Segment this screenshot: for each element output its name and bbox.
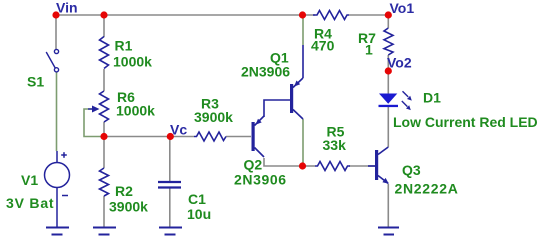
wire R1 top <box>103 15 105 37</box>
wire R5 to Q3 base <box>349 165 375 167</box>
battery V1 <box>45 151 70 227</box>
junction Vin left <box>52 11 59 18</box>
svg-text:3900k: 3900k <box>194 109 233 125</box>
wire R4 to Vo1 <box>349 14 388 16</box>
wire R2 top lead <box>103 137 105 169</box>
svg-text:33k: 33k <box>323 137 347 153</box>
resistor R7 <box>384 28 393 55</box>
svg-text:Q3: Q3 <box>402 162 421 178</box>
resistor R3 <box>194 132 226 141</box>
wire top rail Vin to R4 <box>56 14 315 16</box>
wire Q1 collector down to junction <box>302 119 304 166</box>
R6 wiper arrow <box>88 108 96 110</box>
ground (battery) <box>46 228 69 235</box>
wire Q2 emitter to Q1 base <box>264 100 290 114</box>
capacitor C1 <box>158 182 181 188</box>
LED D1 <box>379 91 412 110</box>
resistor R4 <box>313 11 349 20</box>
wire Vin down to switch <box>55 15 57 49</box>
wire Q3 emitter to ground <box>387 184 389 227</box>
wire R6 wiper loop <box>84 109 104 137</box>
wire switch to battery <box>56 72 58 151</box>
wire C1 top lead <box>169 137 171 182</box>
wire Vo2 to LED <box>387 71 389 94</box>
svg-text:D1: D1 <box>423 90 441 106</box>
svg-text:3900k: 3900k <box>109 199 148 215</box>
svg-text:1000k: 1000k <box>116 103 155 119</box>
wire Vc to R3 <box>170 136 194 138</box>
svg-text:Vo2: Vo2 <box>387 55 412 71</box>
junction Vc <box>167 133 174 140</box>
svg-text:3V Bat: 3V Bat <box>6 195 54 211</box>
ground (R2) <box>93 228 116 235</box>
svg-text:Low Current Red LED: Low Current Red LED <box>393 114 538 130</box>
wire R1 to R6 <box>103 69 105 91</box>
wire junction to R5 <box>303 165 316 167</box>
junction Vin R1 <box>100 11 107 18</box>
svg-text:S1: S1 <box>27 74 44 90</box>
wire LED to Q3 collector <box>387 107 389 147</box>
junction R5 node <box>299 162 306 169</box>
svg-text:R2: R2 <box>115 183 133 199</box>
svg-text:1000k: 1000k <box>113 54 152 70</box>
svg-text:Vo1: Vo1 <box>390 0 415 16</box>
resistor R2 <box>100 168 109 196</box>
ground (Q3) <box>378 228 399 235</box>
svg-text:Vc: Vc <box>170 122 187 138</box>
wire Q1 emitter up to rail <box>302 15 304 45</box>
resistor R1 <box>100 37 109 69</box>
switch S1 <box>46 49 58 72</box>
resistor R5 <box>315 162 350 171</box>
junction R4 left <box>299 11 306 18</box>
ground (C1) <box>159 228 182 235</box>
svg-text:470: 470 <box>311 38 335 54</box>
svg-text:V1: V1 <box>21 172 38 188</box>
junction Vo2 <box>385 67 392 74</box>
svg-text:10u: 10u <box>187 206 211 222</box>
transistor Q1 (PNP 2N3906) <box>290 78 303 119</box>
wire R7 to Vo2 <box>387 55 389 71</box>
svg-text:Vin: Vin <box>56 0 78 16</box>
svg-text:Q2: Q2 <box>244 157 263 173</box>
svg-text:R1: R1 <box>115 38 133 54</box>
transistor Q3 (NPN 2N2222A) <box>368 147 389 184</box>
svg-text:2N3906: 2N3906 <box>241 64 290 80</box>
wire C1 bottom to ground <box>169 188 171 227</box>
svg-text:1: 1 <box>365 42 373 58</box>
wire node to Vc <box>104 136 170 138</box>
svg-text:2N2222A: 2N2222A <box>395 181 459 197</box>
svg-text:C1: C1 <box>188 191 206 207</box>
wire Vo1 to R7 <box>387 15 389 28</box>
resistor R6 (pot) <box>100 91 109 122</box>
svg-text:2N3906: 2N3906 <box>234 172 287 188</box>
wire R3 to Q2 base <box>226 136 251 138</box>
wire Q2 collector to junction <box>264 158 303 166</box>
transistor Q2 (PNP 2N3906) <box>252 114 265 157</box>
wire R6 bottom to node <box>103 122 105 137</box>
junction Vo1 <box>385 11 392 18</box>
wire R2 bottom to ground <box>103 196 105 227</box>
junction R6 bottom node <box>100 133 107 140</box>
